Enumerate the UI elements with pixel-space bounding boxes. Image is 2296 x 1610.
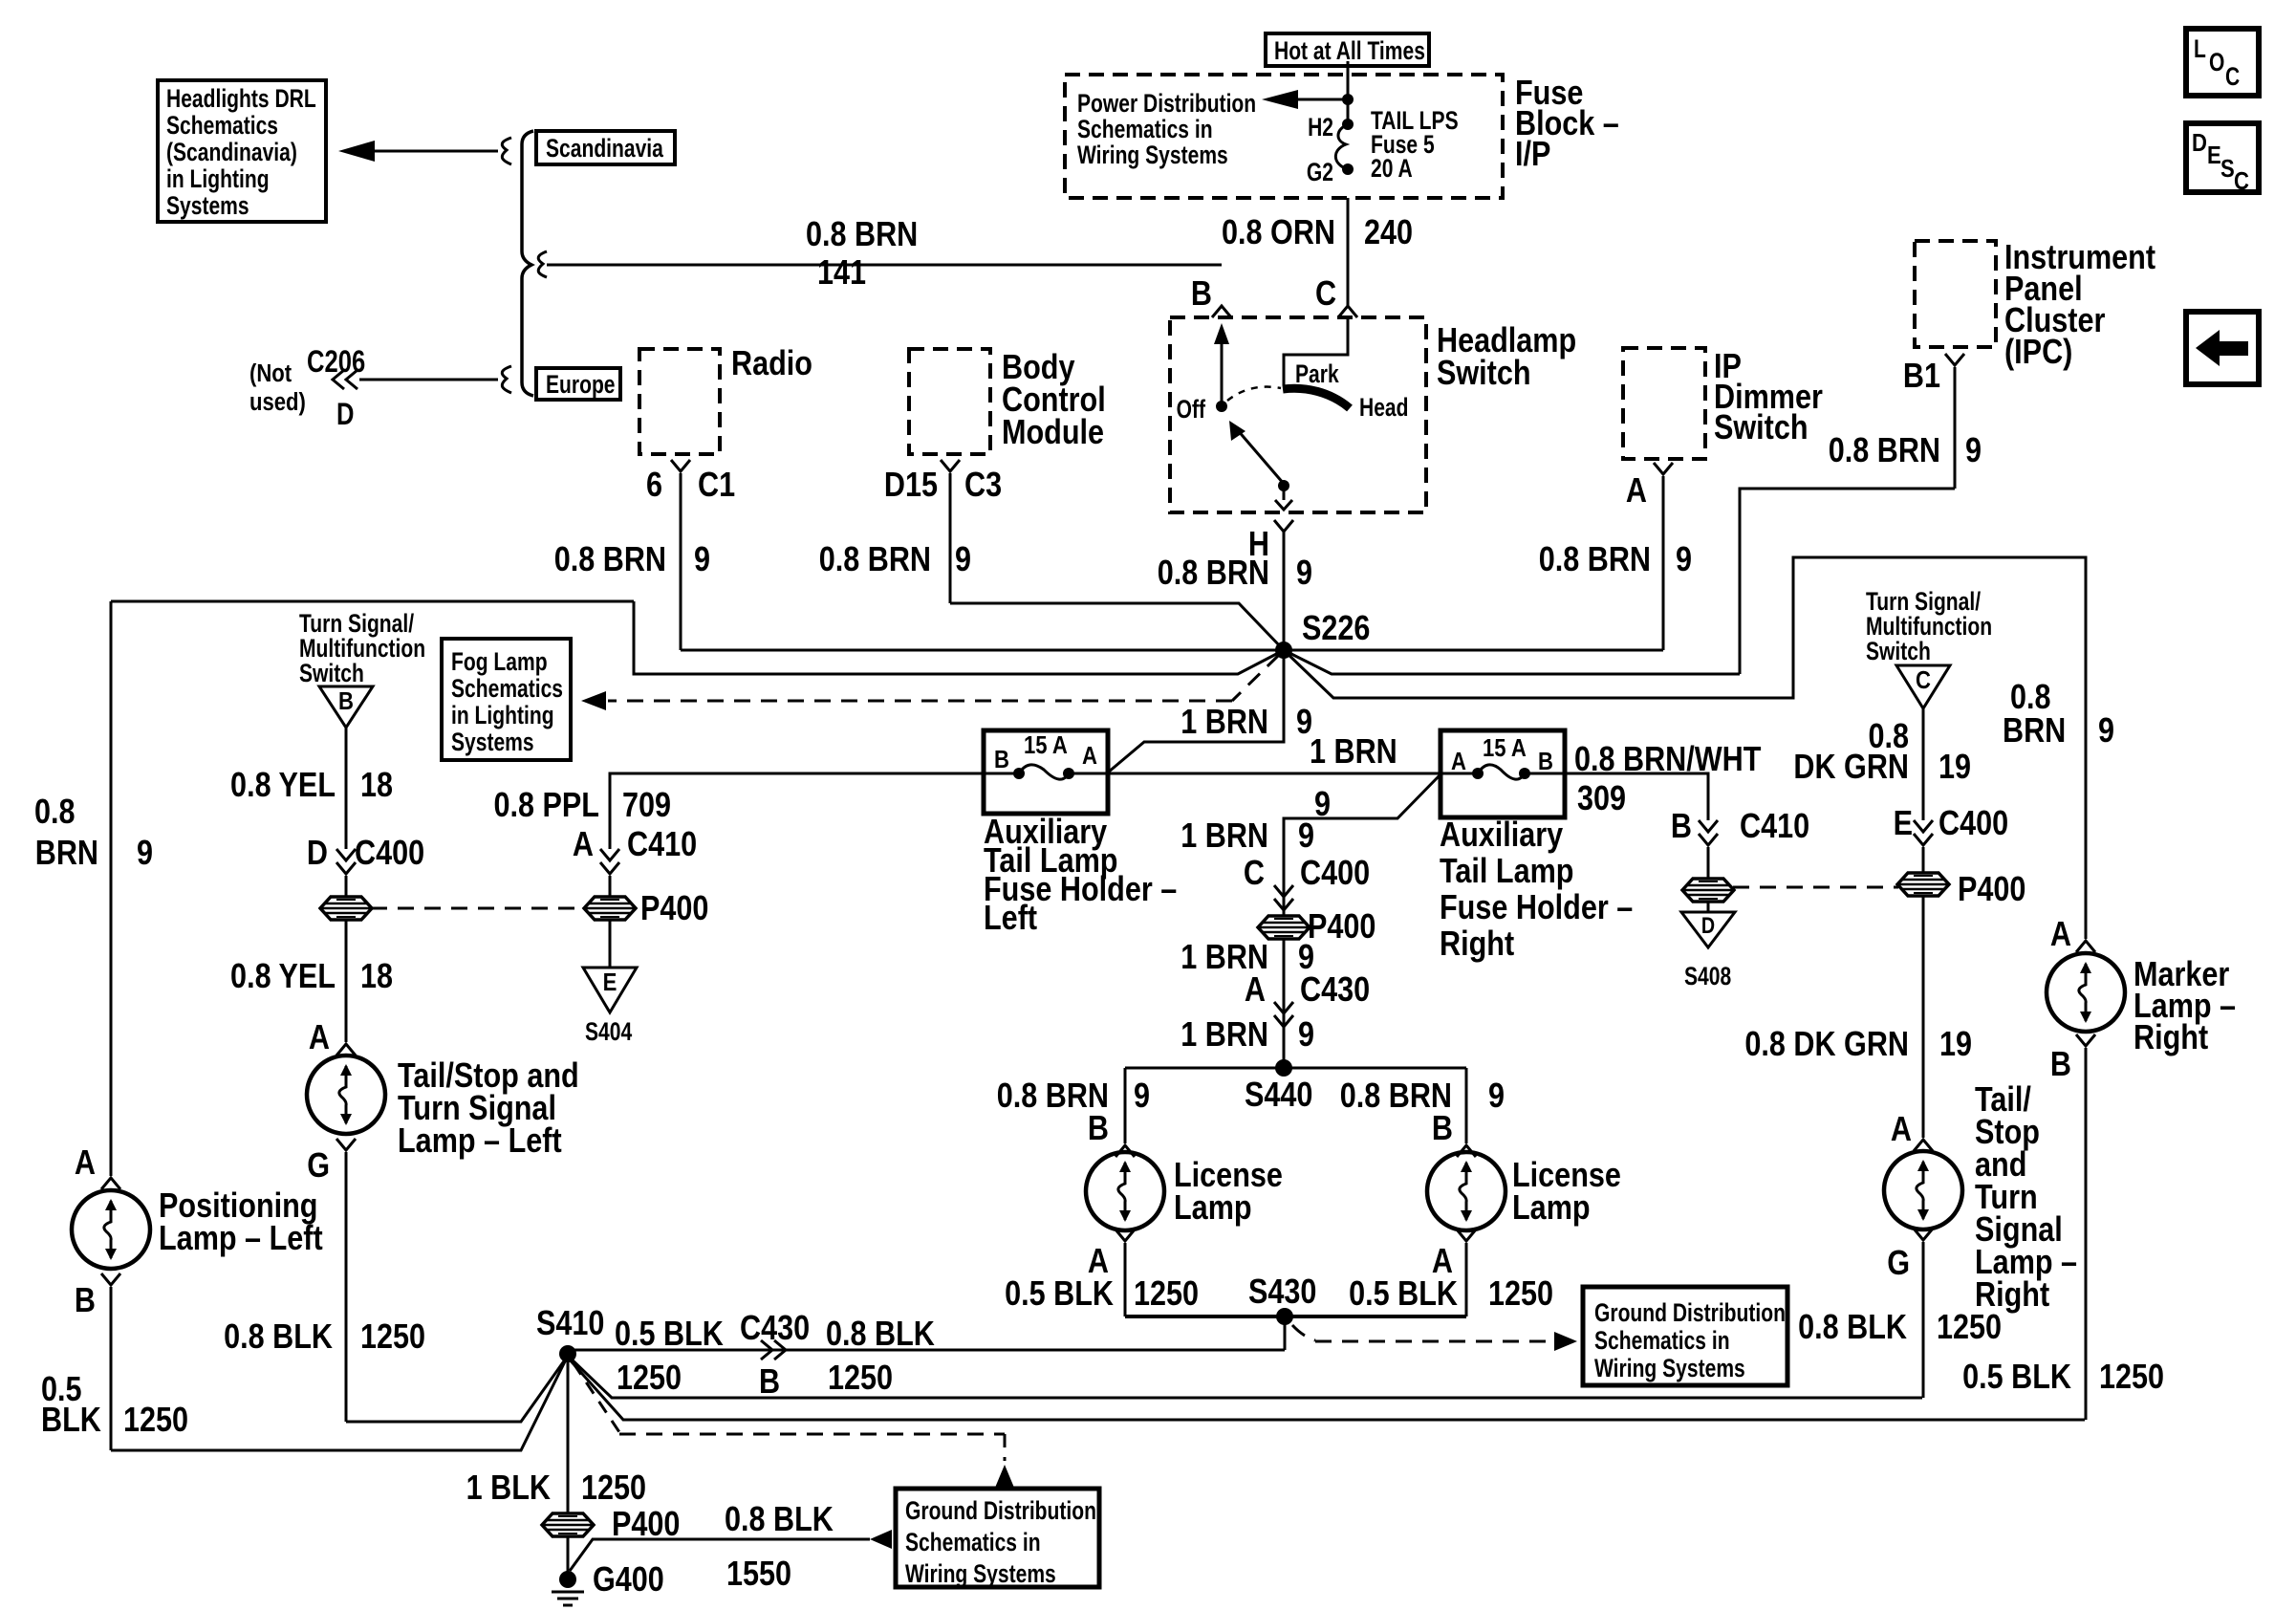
svg-text:P400: P400 xyxy=(640,890,708,928)
svg-text:1 BLK: 1 BLK xyxy=(466,1469,551,1508)
svg-text:G: G xyxy=(307,1147,330,1186)
svg-text:G: G xyxy=(1887,1245,1910,1283)
svg-text:309: 309 xyxy=(1577,780,1626,818)
svg-text:0.5 BLK: 0.5 BLK xyxy=(1962,1359,2071,1397)
svg-text:0.8 BRN: 0.8 BRN xyxy=(1539,541,1651,579)
svg-text:Fuse Holder –: Fuse Holder – xyxy=(1440,889,1633,927)
svg-text:A: A xyxy=(573,826,594,864)
svg-text:1250: 1250 xyxy=(2099,1359,2164,1397)
svg-text:A: A xyxy=(1082,742,1097,770)
svg-text:B: B xyxy=(1538,748,1553,775)
svg-text:C400: C400 xyxy=(1939,805,2008,843)
svg-text:0.8 BRN: 0.8 BRN xyxy=(554,541,666,579)
svg-text:1250: 1250 xyxy=(123,1402,188,1440)
svg-text:1250: 1250 xyxy=(1937,1309,2002,1347)
svg-text:P400: P400 xyxy=(1958,871,2025,909)
svg-text:Schematics: Schematics xyxy=(451,675,563,704)
svg-text:Module: Module xyxy=(1002,414,1104,452)
svg-text:9: 9 xyxy=(1676,541,1692,579)
svg-text:9: 9 xyxy=(694,541,710,579)
svg-text:B: B xyxy=(1191,275,1212,314)
svg-text:1250: 1250 xyxy=(1134,1275,1199,1314)
svg-text:BRN: BRN xyxy=(35,835,98,873)
svg-text:Headlights DRL: Headlights DRL xyxy=(166,85,316,114)
svg-text:DK GRN: DK GRN xyxy=(1793,749,1909,787)
svg-text:9: 9 xyxy=(137,835,153,873)
svg-text:Europe: Europe xyxy=(546,371,616,400)
svg-text:0.8: 0.8 xyxy=(2010,679,2051,717)
svg-text:A: A xyxy=(1245,971,1266,1010)
svg-text:0.8 BLK: 0.8 BLK xyxy=(1798,1309,1907,1347)
svg-text:B: B xyxy=(1432,1110,1453,1148)
svg-text:C: C xyxy=(1315,275,1336,314)
svg-text:Power Distribution: Power Distribution xyxy=(1077,90,1256,119)
svg-text:Lamp: Lamp xyxy=(1512,1189,1591,1228)
svg-text:A: A xyxy=(1626,472,1647,511)
svg-text:18: 18 xyxy=(360,958,393,996)
svg-text:G400: G400 xyxy=(593,1561,664,1599)
svg-text:in Lighting: in Lighting xyxy=(166,165,270,194)
svg-text:0.8 BRN/WHT: 0.8 BRN/WHT xyxy=(1574,741,1762,779)
svg-text:Switch: Switch xyxy=(1866,638,1931,666)
svg-text:S404: S404 xyxy=(585,1018,633,1047)
svg-text:0.5 BLK: 0.5 BLK xyxy=(1005,1275,1114,1314)
svg-text:B: B xyxy=(759,1363,780,1402)
svg-text:0.8: 0.8 xyxy=(34,794,76,832)
svg-text:O: O xyxy=(2209,49,2224,77)
svg-text:9: 9 xyxy=(1488,1077,1505,1116)
svg-text:Radio: Radio xyxy=(731,345,812,383)
svg-text:Schematics in: Schematics in xyxy=(1077,116,1213,144)
svg-text:C3: C3 xyxy=(964,467,1002,505)
svg-text:0.8 BRN: 0.8 BRN xyxy=(806,216,918,254)
svg-text:0.8 YEL: 0.8 YEL xyxy=(230,767,336,805)
svg-text:Systems: Systems xyxy=(166,192,249,221)
svg-text:0.8 ORN: 0.8 ORN xyxy=(1222,214,1335,252)
svg-text:Schematics in: Schematics in xyxy=(905,1529,1041,1557)
svg-text:B: B xyxy=(75,1282,96,1320)
svg-text:Schematics: Schematics xyxy=(166,112,278,141)
svg-text:S408: S408 xyxy=(1684,963,1731,991)
svg-text:C410: C410 xyxy=(1740,808,1809,846)
svg-text:A: A xyxy=(1451,748,1466,775)
svg-text:D: D xyxy=(1701,912,1715,938)
svg-text:9: 9 xyxy=(1296,555,1312,593)
svg-text:C: C xyxy=(2225,63,2240,92)
svg-text:BLK: BLK xyxy=(41,1402,101,1440)
svg-text:B: B xyxy=(338,687,354,715)
svg-text:E: E xyxy=(1894,805,1913,843)
svg-text:A: A xyxy=(2050,916,2071,954)
svg-text:C206: C206 xyxy=(307,345,365,379)
svg-text:15 A: 15 A xyxy=(1024,731,1068,759)
svg-text:0.8 PPL: 0.8 PPL xyxy=(494,787,599,825)
svg-text:C410: C410 xyxy=(627,826,697,864)
svg-text:C430: C430 xyxy=(1300,971,1370,1010)
svg-text:6: 6 xyxy=(646,467,662,505)
svg-text:E: E xyxy=(603,968,617,996)
svg-text:Switch: Switch xyxy=(299,660,364,688)
svg-text:(IPC): (IPC) xyxy=(2004,334,2072,372)
svg-text:0.8 DK GRN: 0.8 DK GRN xyxy=(1744,1026,1909,1064)
svg-text:1250: 1250 xyxy=(828,1360,893,1398)
svg-text:Auxiliary: Auxiliary xyxy=(1440,816,1564,855)
svg-text:Left: Left xyxy=(984,900,1037,938)
svg-text:Schematics in: Schematics in xyxy=(1594,1327,1730,1356)
svg-text:1250: 1250 xyxy=(617,1360,682,1398)
svg-text:S440: S440 xyxy=(1245,1077,1312,1115)
svg-text:1 BRN: 1 BRN xyxy=(1180,817,1268,856)
svg-text:0.5 BLK: 0.5 BLK xyxy=(1349,1275,1458,1314)
svg-text:D: D xyxy=(2192,129,2207,157)
svg-text:Lamp – Left: Lamp – Left xyxy=(398,1122,562,1161)
svg-text:Head: Head xyxy=(1359,394,1408,423)
svg-text:S410: S410 xyxy=(536,1305,604,1343)
svg-text:0.8 BLK: 0.8 BLK xyxy=(224,1318,333,1357)
svg-text:H2: H2 xyxy=(1308,114,1333,142)
svg-text:1250: 1250 xyxy=(1488,1275,1553,1314)
svg-text:Ground Distribution: Ground Distribution xyxy=(1594,1299,1786,1328)
svg-text:Scandinavia: Scandinavia xyxy=(546,135,663,163)
svg-text:C400: C400 xyxy=(355,835,424,873)
svg-text:19: 19 xyxy=(1939,1026,1972,1064)
svg-text:0.8 BLK: 0.8 BLK xyxy=(725,1501,834,1539)
svg-text:B: B xyxy=(994,746,1009,773)
svg-text:0.8 YEL: 0.8 YEL xyxy=(230,958,336,996)
svg-text:B: B xyxy=(1088,1110,1109,1148)
svg-text:Lamp: Lamp xyxy=(1174,1189,1252,1228)
svg-text:I/P: I/P xyxy=(1515,136,1550,174)
svg-text:Systems: Systems xyxy=(451,729,534,757)
svg-text:0.8 BRN: 0.8 BRN xyxy=(1158,555,1269,593)
svg-text:Hot at All Times: Hot at All Times xyxy=(1274,37,1425,66)
svg-text:Wiring Systems: Wiring Systems xyxy=(1594,1355,1745,1383)
svg-text:B: B xyxy=(1671,808,1692,846)
svg-text:S226: S226 xyxy=(1302,610,1370,648)
svg-text:Wiring Systems: Wiring Systems xyxy=(1077,141,1228,170)
svg-text:9: 9 xyxy=(2098,712,2114,751)
svg-text:A: A xyxy=(309,1019,330,1057)
svg-text:Ground Distribution: Ground Distribution xyxy=(905,1497,1096,1526)
svg-text:C: C xyxy=(1916,666,1931,694)
svg-text:0.8 BRN: 0.8 BRN xyxy=(819,541,931,579)
svg-text:E: E xyxy=(2207,141,2221,169)
svg-text:in Lighting: in Lighting xyxy=(451,702,554,730)
svg-text:1 BRN: 1 BRN xyxy=(1180,704,1268,742)
svg-text:A: A xyxy=(75,1144,96,1183)
svg-text:18: 18 xyxy=(360,767,393,805)
svg-text:19: 19 xyxy=(1939,749,1971,787)
svg-text:B: B xyxy=(2050,1046,2071,1084)
svg-text:used): used) xyxy=(249,388,306,416)
svg-text:Fog Lamp: Fog Lamp xyxy=(451,648,548,677)
svg-text:Right: Right xyxy=(1440,925,1514,964)
svg-text:20 A: 20 A xyxy=(1371,155,1413,184)
svg-text:9: 9 xyxy=(955,541,971,579)
svg-text:A: A xyxy=(1891,1111,1912,1149)
svg-text:141: 141 xyxy=(817,254,866,293)
svg-text:L: L xyxy=(2194,35,2206,64)
svg-text:9: 9 xyxy=(1134,1077,1150,1116)
svg-text:1250: 1250 xyxy=(581,1469,646,1508)
svg-text:Tail Lamp: Tail Lamp xyxy=(1440,853,1573,891)
svg-text:9: 9 xyxy=(1965,432,1982,470)
svg-text:1 BRN: 1 BRN xyxy=(1310,733,1397,772)
svg-text:240: 240 xyxy=(1364,214,1413,252)
svg-text:9: 9 xyxy=(1298,1016,1314,1055)
svg-text:S430: S430 xyxy=(1248,1273,1316,1312)
svg-text:Off: Off xyxy=(1177,396,1206,424)
svg-text:B1: B1 xyxy=(1903,358,1940,396)
svg-text:C: C xyxy=(2234,167,2249,195)
svg-text:9: 9 xyxy=(1298,817,1314,856)
svg-text:709: 709 xyxy=(622,787,671,825)
svg-text:Wiring Systems: Wiring Systems xyxy=(905,1560,1056,1589)
svg-text:1550: 1550 xyxy=(726,1556,791,1594)
svg-text:Switch: Switch xyxy=(1714,409,1809,447)
svg-text:0.8 BRN: 0.8 BRN xyxy=(1829,432,1940,470)
svg-text:D: D xyxy=(307,835,328,873)
svg-text:C1: C1 xyxy=(698,467,735,505)
svg-text:D15: D15 xyxy=(884,467,938,505)
svg-text:D: D xyxy=(336,398,354,431)
svg-text:1250: 1250 xyxy=(360,1318,425,1357)
svg-text:0.5 BLK: 0.5 BLK xyxy=(615,1316,724,1354)
svg-text:(Not: (Not xyxy=(249,359,292,387)
svg-text:1 BRN: 1 BRN xyxy=(1180,1016,1268,1055)
svg-text:Switch: Switch xyxy=(1437,355,1531,393)
svg-text:(Scandinavia): (Scandinavia) xyxy=(166,139,297,167)
svg-text:C400: C400 xyxy=(1300,855,1370,893)
svg-text:Lamp – Left: Lamp – Left xyxy=(159,1220,323,1258)
svg-text:BRN: BRN xyxy=(2003,712,2066,751)
svg-text:C: C xyxy=(1244,855,1265,893)
svg-text:P400: P400 xyxy=(1308,908,1375,946)
svg-text:15 A: 15 A xyxy=(1483,734,1527,762)
svg-text:Right: Right xyxy=(2134,1019,2208,1057)
svg-text:0.8 BLK: 0.8 BLK xyxy=(826,1316,935,1354)
svg-text:S: S xyxy=(2220,155,2235,183)
svg-text:G2: G2 xyxy=(1307,159,1333,187)
svg-text:C430: C430 xyxy=(740,1310,810,1348)
